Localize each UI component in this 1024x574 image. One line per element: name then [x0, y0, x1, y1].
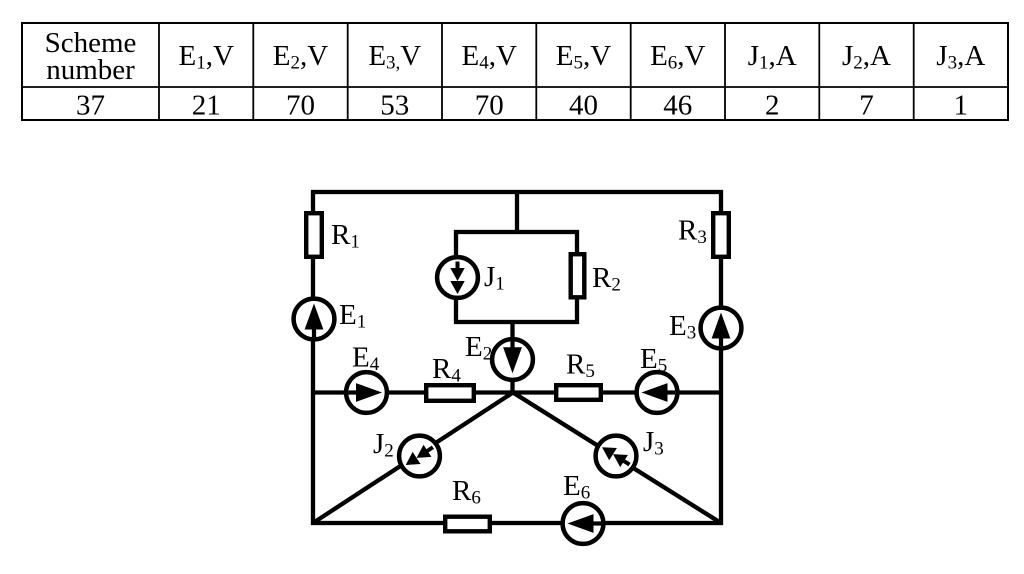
svg-text:E6,V: E6,V — [650, 40, 705, 74]
svg-text:J3,A: J3,A — [936, 40, 985, 74]
voltage source E3 — [701, 308, 742, 349]
svg-text:J2,A: J2,A — [842, 40, 891, 74]
wire outer loop — [313, 192, 721, 523]
voltage source E4 — [346, 372, 387, 413]
voltage source E6 — [563, 503, 604, 544]
svg-text:40: 40 — [569, 90, 598, 122]
label R6 — [452, 475, 481, 509]
svg-text:E5,V: E5,V — [556, 40, 611, 74]
svg-text:1: 1 — [954, 90, 969, 122]
label R2 — [592, 262, 621, 296]
label E1 — [339, 299, 366, 333]
label E2 — [465, 331, 492, 365]
svg-text:E1,V: E1,V — [178, 40, 233, 74]
label R3 — [678, 215, 707, 249]
label E5 — [640, 343, 667, 377]
label J1 — [484, 261, 505, 295]
current source J3 — [596, 436, 637, 477]
wire E2 stub — [510, 322, 514, 393]
resistor R4 — [426, 385, 474, 401]
svg-text:46: 46 — [663, 90, 692, 122]
svg-text:21: 21 — [192, 90, 221, 122]
current source J2 — [399, 436, 440, 477]
label J3 — [643, 426, 664, 460]
svg-text:E2,V: E2,V — [273, 40, 328, 74]
data table — [22, 23, 1008, 122]
svg-text:2: 2 — [765, 90, 780, 122]
voltage source E1 — [294, 299, 335, 340]
svg-text:E4,V: E4,V — [461, 40, 516, 74]
wire top stub — [515, 192, 519, 232]
resistor R6 — [445, 517, 490, 532]
wire diagonal left — [313, 393, 513, 524]
wire middle horizontal — [313, 390, 721, 394]
current source J1 — [437, 257, 478, 298]
label E4 — [352, 342, 380, 376]
svg-text:37: 37 — [76, 90, 105, 122]
voltage source E2 — [492, 339, 533, 380]
svg-text:70: 70 — [286, 90, 315, 122]
label R1 — [331, 219, 360, 253]
resistor R5 — [556, 385, 601, 400]
label E3 — [669, 310, 696, 344]
resistor R1 — [306, 213, 322, 257]
resistor R2 — [571, 254, 585, 297]
wire inner box — [456, 232, 577, 322]
resistor R3 — [713, 213, 729, 257]
svg-text:53: 53 — [380, 90, 409, 122]
label E6 — [563, 470, 590, 504]
svg-text:J1,A: J1,A — [748, 40, 797, 74]
svg-text:7: 7 — [859, 90, 874, 122]
label R4 — [432, 353, 461, 387]
svg-text:70: 70 — [475, 90, 504, 122]
wire diagonal right — [513, 393, 721, 524]
label R5 — [566, 349, 595, 383]
svg-text:number: number — [46, 54, 135, 86]
voltage source E5 — [637, 372, 678, 413]
label J2 — [373, 428, 394, 462]
